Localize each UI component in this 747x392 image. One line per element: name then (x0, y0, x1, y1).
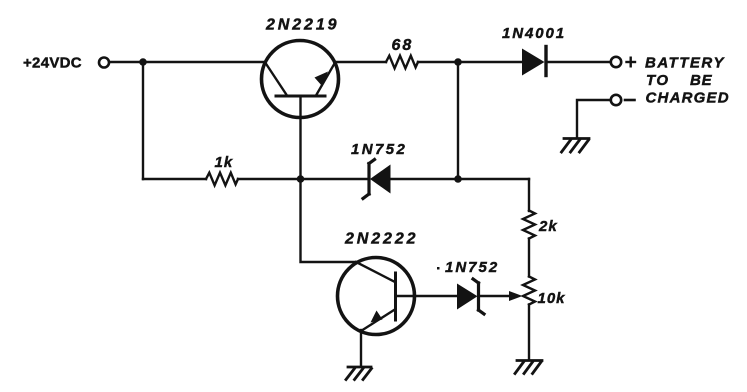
wire right vertical (top rail to middle rail) (457, 62, 459, 179)
junction (top-right) (454, 58, 462, 66)
wire 2k to 10k (528, 239, 530, 277)
terminal battery + (611, 57, 621, 67)
wire Q2 base (301, 179, 358, 262)
resistor 68 (386, 56, 418, 69)
svg-text:TO: TO (646, 72, 670, 89)
wire Q2 collector to zener D3 (415, 295, 458, 297)
svg-text:10k: 10k (538, 290, 566, 307)
plus sign (627, 58, 636, 67)
potentiometer 10k (523, 277, 535, 305)
svg-text:CHARGED: CHARGED (646, 90, 730, 107)
wiper arrow into 10k (509, 291, 523, 301)
transistor Q2 2N2222 (338, 258, 415, 335)
svg-text:1N4001: 1N4001 (502, 25, 566, 42)
zener D3 1N752 (457, 279, 484, 314)
resistor 2k (523, 211, 535, 239)
svg-text:2N2219: 2N2219 (265, 17, 339, 34)
svg-text:2k: 2k (538, 218, 558, 235)
zener D2 1N752 (363, 160, 391, 199)
wire zener D3 to wiper arrow (480, 295, 512, 297)
wire left vertical (142, 62, 144, 179)
svg-text:BE: BE (690, 72, 713, 89)
wire 1k to zener D2 (238, 178, 367, 180)
wire diode to battery + terminal (548, 61, 611, 63)
wire top rail left (110, 61, 263, 63)
svg-text:1N752: 1N752 (351, 141, 407, 158)
svg-text:1N752: 1N752 (445, 259, 499, 276)
text BATTERY TO BE CHARGED (645, 55, 730, 107)
wire battery - to ground (577, 100, 611, 138)
wire Q1 emitter to R 68 (335, 61, 387, 63)
junction (top-left) (139, 58, 147, 66)
svg-text:1k: 1k (215, 154, 234, 171)
resistor 1k (206, 173, 238, 186)
junction (middle-right) (454, 175, 462, 183)
junction (middle, Q1 base) (297, 175, 305, 183)
svg-text:68: 68 (392, 37, 414, 54)
wire middle rail left segment (143, 178, 206, 180)
wire R68 to diode (418, 61, 522, 63)
ground (Q2 emitter) (346, 367, 372, 380)
stray dot before label (437, 267, 440, 270)
terminal +24VDC (99, 58, 109, 68)
terminal battery - (611, 95, 621, 105)
wire corner down to 2k (528, 179, 530, 211)
svg-text:2N2222: 2N2222 (344, 231, 418, 248)
svg-text:+24VDC: +24VDC (23, 55, 82, 72)
transistor Q1 2N2219 (262, 41, 339, 180)
minus sign (625, 99, 635, 102)
ground (battery -) (562, 139, 590, 153)
wire 10k to ground (528, 305, 530, 360)
ground (10k) (515, 361, 542, 374)
wire Q2 emitter down (360, 330, 362, 366)
svg-text:BATTERY: BATTERY (645, 55, 725, 72)
wire zener D2 to corner (391, 178, 530, 180)
diode D1 1N4001 (522, 47, 546, 76)
